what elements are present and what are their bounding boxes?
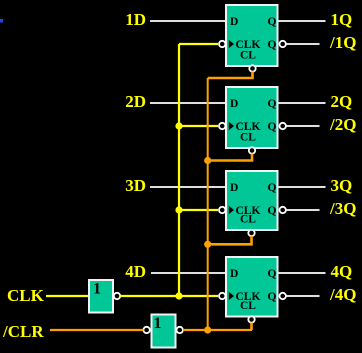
wire CLR vertical bus [207,78,209,330]
svg-text:2Q: 2Q [331,92,353,111]
wire /CLR to U6 input [50,329,143,331]
wire 3D to U3.D [150,186,225,188]
wire 4D to U4.D [151,272,225,274]
svg-text:/CLR: /CLR [2,322,44,341]
wire CLK branch to U1 [179,43,218,45]
wire U1.CL drop [208,72,253,79]
wire U6 output to CLR junction [183,329,252,331]
junction CLR-U3 [204,241,211,248]
flip-flop U1 box [225,4,279,67]
svg-text:3Q: 3Q [331,176,353,195]
svg-text:Q: Q [268,205,277,217]
U2 clock wedge [229,122,234,131]
wire 2D to U2.D [150,102,225,104]
svg-text:1: 1 [93,281,101,298]
wire U4.CL drop [250,323,253,331]
junction CLR-U4 [204,326,211,333]
svg-text:1Q: 1Q [331,10,353,29]
U1 clock wedge [229,40,234,49]
svg-text:CL: CL [240,49,256,61]
U1 CLK input bubble [219,41,225,47]
U6 input bubble [143,327,149,333]
svg-text:/1Q: /1Q [329,33,356,52]
junction CLK-U4 [175,292,182,299]
inverter U6 (/CLR buffer) box [151,314,177,349]
svg-text:Q: Q [268,268,277,280]
svg-text:3D: 3D [125,176,146,195]
svg-text:2D: 2D [125,92,146,111]
svg-text:Q: Q [268,39,277,51]
U3 CLK input bubble [219,207,225,213]
U4 CLK input bubble [219,293,225,299]
svg-text:/3Q: /3Q [329,199,356,218]
svg-text:Q: Q [268,291,277,303]
U4 Qbar output bubble [280,293,286,299]
U5 output bubble [114,293,120,299]
junction CLR-U2 [204,157,211,164]
svg-text:CL: CL [240,300,256,312]
wire U2.CL drop [208,154,252,161]
svg-text:1D: 1D [125,10,146,29]
svg-text:Q: Q [268,121,277,133]
inverter U5 (CLK buffer) box [88,279,114,314]
wire U4.Q to 4Q [279,272,326,274]
wire U3.Q to 3Q [279,186,326,188]
U6 output bubble [177,327,183,333]
U3 clock wedge [229,206,234,215]
wire CLK to U5 input [46,295,88,297]
U2 Qbar output bubble [280,123,286,129]
wire U5 output to U4.CLK [120,295,218,297]
junction CLK-U2 [175,122,182,129]
stray blue mark left edge [0,19,3,23]
U4 CL bubble [248,316,254,322]
wire U3.Qbar to /3Q [287,209,320,211]
svg-text:4D: 4D [125,262,146,281]
wire U1.Qbar to /1Q [287,43,320,45]
svg-text:Q: Q [268,182,277,194]
svg-text:Q: Q [268,16,277,28]
svg-text:Q: Q [268,98,277,110]
svg-text:4Q: 4Q [331,262,353,281]
svg-text:D: D [230,98,238,110]
svg-text:CLK: CLK [7,286,45,305]
flip-flop U2 box [225,86,279,149]
flip-flop U4 box [225,256,279,318]
svg-text:1: 1 [154,315,162,332]
svg-text:CL: CL [240,132,256,144]
wire U1.Q to 1Q [279,20,326,22]
svg-text:D: D [230,268,238,280]
U1 CL bubble [249,65,255,71]
U3 CL bubble [248,230,254,236]
U3 Qbar output bubble [280,207,286,213]
svg-text:D: D [230,182,238,194]
svg-text:/4Q: /4Q [329,285,356,304]
svg-text:D: D [230,16,238,28]
flip-flop U3 box [225,170,279,231]
wire U3.CL drop [208,236,252,244]
U1 Qbar output bubble [280,41,286,47]
svg-text:CL: CL [240,213,256,225]
svg-text:/2Q: /2Q [329,115,356,134]
wire CLK vertical bus [178,44,180,296]
junction CLK-U3 [175,206,182,213]
wire U2.Q to 2Q [279,102,326,104]
wire U4.Qbar to /4Q [287,295,320,297]
wire CLK branch to U2 [179,125,218,127]
wire 1D to U1.D [150,20,225,22]
wire U2.Qbar to /2Q [287,125,320,127]
U2 CL bubble [249,147,255,153]
wire CLK branch to U3 [179,209,218,211]
U4 clock wedge [229,292,234,301]
U2 CLK input bubble [219,123,225,129]
